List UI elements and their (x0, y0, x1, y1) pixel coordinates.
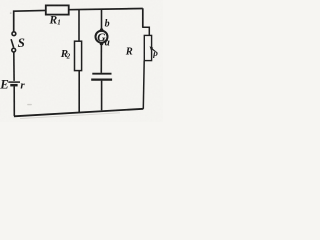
battery E short plate (10, 84, 17, 87)
scan grain overlay (0, 0, 163, 122)
wire top-right corner down (142, 8, 144, 27)
capacitor bottom plate (91, 78, 112, 80)
svg-text:S: S (18, 35, 25, 50)
wiper arrow (150, 46, 156, 51)
battery E long plate (8, 81, 20, 83)
svg-text:1: 1 (57, 18, 61, 26)
wire capacitor to bottom (101, 81, 103, 111)
svg-text:a: a (105, 38, 110, 49)
wire top middle (69, 9, 143, 10)
wire switch to battery (13, 52, 15, 81)
svg-text:ρ: ρ (152, 48, 158, 58)
svg-text:r: r (20, 80, 25, 92)
switch S bottom contact (12, 48, 16, 52)
scan smudge left-bottom (27, 104, 32, 105)
wire below rheostat (142, 61, 145, 109)
wire branch R2 top (78, 9, 80, 41)
wire jog to rheostat (142, 27, 149, 35)
terminal b dot (100, 28, 104, 32)
svg-text:R: R (49, 15, 58, 27)
capacitor top plate (92, 73, 111, 75)
svg-text:b: b (105, 19, 110, 30)
switch S blade (11, 39, 14, 47)
scan shadow under bottom wire (20, 113, 120, 119)
terminal a dot (100, 42, 104, 46)
wire top-left corner and left vertical (14, 10, 46, 31)
wire branch G top (101, 9, 103, 30)
svg-text:E: E (0, 78, 9, 92)
wire branch R2 bottom (78, 71, 80, 113)
wire bottom (14, 109, 143, 117)
switch S top contact (12, 32, 16, 36)
svg-text:2: 2 (66, 52, 71, 60)
paper background (0, 0, 163, 122)
scan speck near top-left corner (10, 12, 12, 13)
resistor R2 box (75, 41, 82, 70)
galvanometer G circle (96, 31, 108, 43)
wire G to capacitor (100, 45, 102, 73)
wire battery to bottom (13, 87, 15, 116)
resistor R1 (46, 5, 69, 14)
rheostat R box (144, 35, 151, 60)
svg-text:R: R (125, 47, 133, 58)
